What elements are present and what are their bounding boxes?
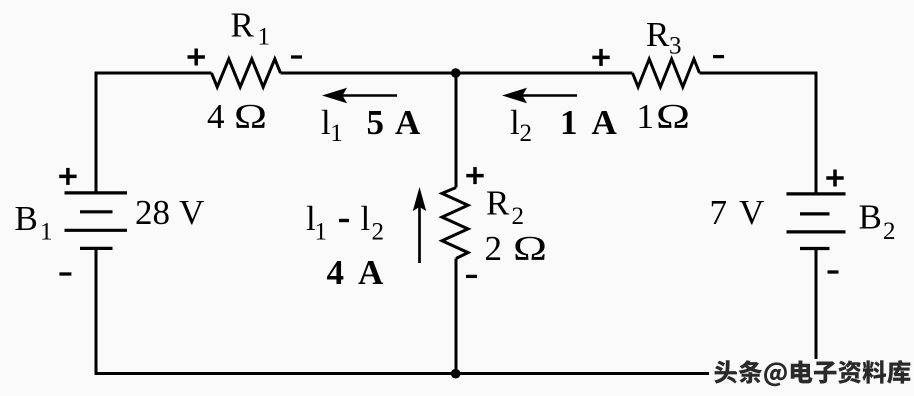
wire top left segment bbox=[96, 72, 212, 75]
current arrow I1 bbox=[322, 88, 397, 103]
svg-text:28: 28 bbox=[135, 193, 170, 232]
polarity + R3 bbox=[592, 49, 609, 66]
svg-text:2: 2 bbox=[883, 218, 896, 245]
svg-text:R: R bbox=[486, 184, 510, 223]
svg-text:V: V bbox=[739, 193, 764, 232]
wire middle vertical upper bbox=[455, 73, 458, 188]
battery B2 plates bbox=[787, 194, 846, 249]
wire left vertical lower bbox=[95, 250, 98, 376]
watermark 头条@电子资料库 bbox=[714, 360, 910, 386]
svg-text:3: 3 bbox=[669, 32, 682, 59]
polarity - R3 bbox=[713, 55, 724, 58]
polarity + B1 bbox=[59, 168, 76, 185]
polarity - B1 bbox=[59, 272, 71, 275]
watermark background mask bbox=[709, 360, 914, 393]
wire top right segment bbox=[700, 72, 817, 75]
wire top middle segment bbox=[281, 72, 633, 75]
svg-text:l: l bbox=[361, 199, 371, 238]
svg-text:1: 1 bbox=[315, 219, 328, 246]
svg-text:4: 4 bbox=[327, 253, 345, 292]
wire left vertical upper bbox=[95, 72, 98, 192]
wire right vertical lower bbox=[815, 250, 818, 374]
polarity + B2 bbox=[826, 170, 843, 187]
svg-text:4: 4 bbox=[207, 97, 225, 136]
wire bottom bbox=[95, 372, 817, 375]
svg-text:Ω: Ω bbox=[513, 229, 547, 268]
svg-text:7: 7 bbox=[710, 193, 728, 232]
svg-text:B: B bbox=[15, 199, 38, 238]
node junction bottom bbox=[451, 369, 461, 379]
resistor R3 bbox=[633, 59, 700, 87]
resistor R1 bbox=[212, 59, 281, 87]
svg-text:2: 2 bbox=[372, 219, 385, 246]
resistor R2 bbox=[442, 188, 468, 259]
current arrow I2 bbox=[502, 88, 577, 103]
svg-text:A: A bbox=[358, 253, 384, 292]
svg-text:1: 1 bbox=[560, 103, 578, 142]
svg-text:l: l bbox=[510, 103, 520, 142]
polarity - R1 bbox=[291, 55, 302, 58]
node junction top bbox=[451, 68, 461, 78]
wire right vertical upper bbox=[815, 72, 818, 193]
svg-text:Ω: Ω bbox=[234, 97, 267, 136]
polarity - B2 bbox=[828, 270, 839, 273]
svg-text:1: 1 bbox=[40, 219, 53, 246]
wire middle vertical lower bbox=[455, 259, 458, 374]
current arrow I1-I2 (up) bbox=[413, 187, 426, 263]
polarity + R2 bbox=[466, 167, 483, 184]
svg-text:R: R bbox=[646, 15, 670, 54]
svg-text:1: 1 bbox=[330, 120, 343, 147]
svg-text:1: 1 bbox=[637, 97, 655, 136]
svg-text:A: A bbox=[395, 103, 421, 142]
svg-text:2: 2 bbox=[512, 203, 525, 230]
svg-text:2: 2 bbox=[520, 120, 533, 147]
svg-text:B: B bbox=[859, 198, 882, 237]
polarity + R1 bbox=[188, 49, 205, 66]
svg-text:5: 5 bbox=[367, 103, 385, 142]
svg-text:R: R bbox=[231, 6, 255, 45]
svg-text:1: 1 bbox=[258, 23, 271, 50]
polarity - R2 bbox=[466, 275, 477, 278]
battery B1 plates bbox=[65, 193, 128, 249]
svg-text:2: 2 bbox=[485, 229, 503, 268]
svg-text:A: A bbox=[592, 103, 618, 142]
svg-text:Ω: Ω bbox=[656, 97, 690, 136]
svg-text:V: V bbox=[179, 193, 204, 232]
